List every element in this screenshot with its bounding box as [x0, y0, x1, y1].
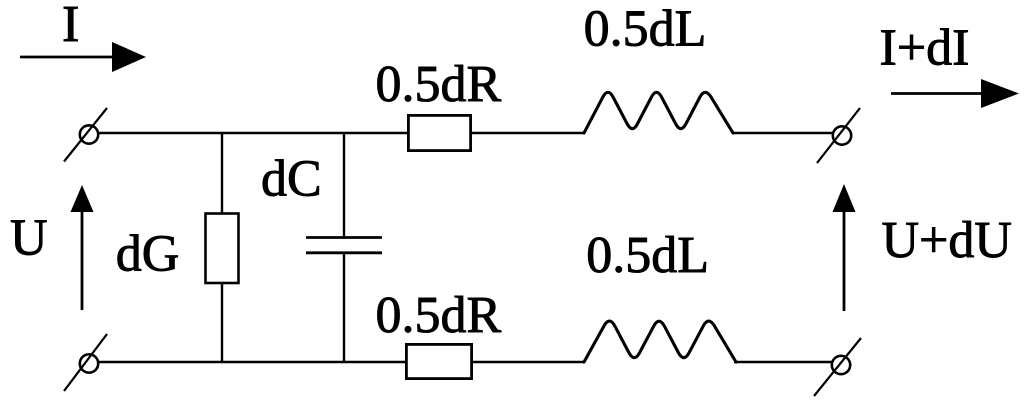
wire dC bottom stub [343, 253, 345, 363]
terminal top-right port [833, 126, 851, 144]
svg-text:0.5dR: 0.5dR [376, 287, 502, 344]
arrow U (input voltage polarity) [71, 185, 94, 310]
svg-text:0.5dL: 0.5dL [586, 227, 709, 284]
terminal bottom-left port [80, 354, 98, 372]
slash top-right port [817, 108, 860, 163]
slash bottom-left port [64, 334, 107, 391]
svg-text:dG: dG [116, 226, 180, 283]
wire top-right: inductor to port [732, 132, 833, 134]
arrow U+dU (output voltage polarity) [833, 184, 856, 311]
wire bottom middle: resistor to inductor [472, 361, 584, 363]
resistor dG (shunt conductance) [206, 214, 239, 284]
svg-text:U: U [10, 210, 48, 267]
inductor 0.5dL (top series) [584, 92, 733, 133]
wire bottom-left: port to resistor 0.5dR [98, 361, 406, 363]
slash bottom-right port [814, 338, 861, 396]
terminal bottom-right port [832, 356, 850, 374]
capacitor dC [306, 238, 382, 253]
svg-text:dC: dC [261, 151, 322, 208]
svg-text:I: I [62, 0, 79, 53]
wire top middle: resistor to inductor [472, 132, 585, 134]
wire dG vertical branch [221, 133, 223, 362]
wire dC top stub [343, 133, 345, 237]
arrow I+dI (output current direction) [891, 79, 1019, 108]
arrow I (input current direction) [20, 42, 146, 72]
slash top-left port [64, 108, 107, 162]
svg-text:U+dU: U+dU [882, 212, 1012, 269]
wire bottom-right: inductor to port [734, 361, 832, 363]
svg-text:0.5dL: 0.5dL [584, 1, 707, 58]
svg-text:0.5dR: 0.5dR [376, 56, 502, 113]
resistor 0.5dR (top series) [408, 115, 470, 150]
svg-text:I+dI: I+dI [880, 20, 970, 77]
wire top-left: port to resistor 0.5dR [98, 132, 408, 134]
terminal top-left port [80, 125, 98, 143]
resistor 0.5dR (bottom series) [406, 344, 471, 378]
inductor 0.5dL (bottom series) [584, 321, 736, 362]
